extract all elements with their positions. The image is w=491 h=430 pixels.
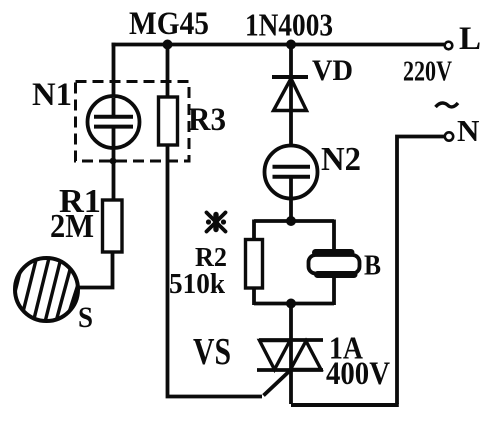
ac tilde symbol [436, 103, 459, 107]
svg-text:S: S [78, 301, 93, 334]
touch plate S hatched disc [12, 244, 82, 330]
wire bottom rail [291, 403, 399, 407]
resistor R2 [246, 240, 263, 289]
svg-text:400V: 400V [326, 356, 390, 392]
svg-text:L: L [459, 21, 481, 57]
svg-text:B: B [364, 251, 381, 282]
svg-text:N: N [457, 113, 479, 148]
asterisk reference mark [206, 213, 226, 232]
diode VD [272, 75, 308, 79]
resistor R1 [103, 200, 123, 252]
svg-text:N2: N2 [321, 141, 361, 178]
wire N1 top lead [112, 43, 116, 117]
piezo sounder B [309, 253, 360, 275]
wire N terminal to right bus [397, 137, 445, 405]
svg-text:MG45: MG45 [129, 6, 209, 42]
wire top rail L line [112, 43, 445, 47]
node junction at 1N4003/VD branch [286, 40, 296, 50]
wire N2 bottom lead [289, 177, 293, 221]
terminal N [445, 132, 453, 140]
svg-text:R3: R3 [188, 102, 226, 138]
neon lamp N2 [265, 146, 318, 199]
wire R3 top lead [166, 45, 170, 98]
wire VD/N2 center lead [289, 45, 293, 168]
terminal L [445, 42, 453, 50]
node junction bottom of RC pair [286, 299, 296, 309]
node junction at MG45/R3 branch [163, 40, 173, 50]
wire triac gate [264, 372, 290, 396]
wire B top lead [332, 220, 336, 253]
svg-text:VS: VS [193, 331, 231, 373]
triac VS [257, 340, 323, 370]
svg-text:510k: 510k [169, 268, 226, 300]
resistor R3 [159, 97, 178, 145]
wire to triac [289, 304, 293, 405]
neon lamp N1 [88, 96, 140, 148]
node junction top of RC pair [286, 216, 296, 226]
svg-text:220V: 220V [403, 56, 452, 88]
wire R2 bottom lead [252, 288, 256, 305]
wire R3 bottom to gate run [168, 145, 263, 397]
svg-text:VD: VD [312, 54, 353, 87]
wire R1 bottom to touch plate [78, 252, 113, 288]
wire N1 bottom lead [112, 127, 116, 200]
node dot at dashed box bottom [110, 158, 117, 165]
svg-text:2M: 2M [50, 208, 94, 245]
wire B bottom lead [332, 277, 336, 305]
svg-text:N1: N1 [32, 77, 72, 113]
dashed box MG45 optocoupler [76, 82, 190, 162]
svg-text:1N4003: 1N4003 [245, 7, 333, 43]
wire R2 top lead [252, 220, 256, 240]
wire parallel bottom rail [254, 302, 334, 306]
wire parallel top rail [254, 219, 334, 223]
